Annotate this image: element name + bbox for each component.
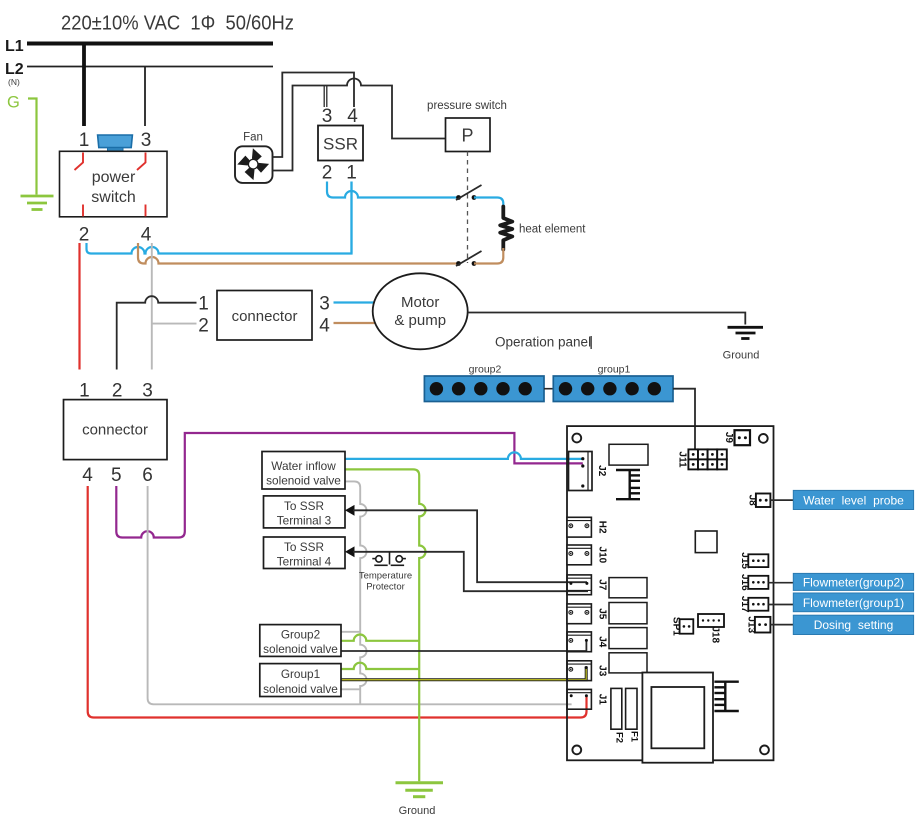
- svg-text:J9: J9: [723, 432, 734, 444]
- svg-text:3: 3: [319, 294, 330, 315]
- svg-text:Ground: Ground: [399, 805, 436, 817]
- ground (motor, black): [728, 327, 764, 338]
- contact K1 (upper, in blue wire): [456, 195, 461, 200]
- svg-text:power: power: [92, 169, 136, 186]
- svg-text:1: 1: [79, 130, 90, 151]
- svg-text:2: 2: [322, 163, 333, 184]
- svg-text:To SSR: To SSR: [284, 499, 324, 513]
- wire L1 bus: [27, 42, 273, 46]
- wire G to ground: [28, 99, 37, 195]
- svg-text:5: 5: [111, 465, 122, 486]
- wire gray branch to middle connector pin2: [152, 323, 197, 325]
- label box Water level probe: [793, 490, 913, 509]
- wire L1 to power switch pin 1: [82, 44, 86, 127]
- svg-text:4: 4: [141, 225, 152, 246]
- svg-text:J5: J5: [597, 608, 608, 620]
- wire group2-group1: [544, 388, 553, 390]
- svg-text:SSR: SSR: [323, 135, 358, 154]
- wire black: middle connector pin1 to lower connector pin2 (hops over gray): [117, 296, 197, 369]
- SSR pin3 lead (double line): [323, 86, 325, 108]
- svg-text:H2: H2: [597, 521, 608, 534]
- To SSR Terminal 4 box: [264, 537, 346, 569]
- wire blue contact to heat element top: [474, 198, 503, 209]
- SSR U1 body: [318, 126, 363, 161]
- svg-text:To SSR: To SSR: [284, 540, 324, 554]
- svg-text:P: P: [461, 126, 473, 146]
- operation panel connector group1: [553, 376, 673, 402]
- PCB outline: [567, 426, 774, 760]
- wire L2 to power switch pin 3: [144, 67, 146, 127]
- svg-text:solenoid valve: solenoid valve: [263, 642, 338, 656]
- svg-text:Fan: Fan: [243, 132, 263, 144]
- wire gray: water inflow valve down to gray bottom rail (hops right over crossing wires): [345, 481, 367, 704]
- operation panel connector group2: [424, 376, 544, 402]
- connector J5: [567, 604, 608, 624]
- svg-text:Flowmeter(group2): Flowmeter(group2): [803, 575, 904, 589]
- svg-text:Protector: Protector: [366, 582, 405, 593]
- four empty rects column: [609, 578, 647, 598]
- To SSR Terminal 3 box: [264, 496, 346, 528]
- svg-text:F2: F2: [614, 732, 625, 743]
- wire fan lower to SSR pin3 and pressure switch (hops over pin4 wire): [273, 79, 446, 171]
- wire gray: power switch pin4 down to connector pin3: [151, 243, 153, 370]
- svg-text:4: 4: [82, 465, 93, 486]
- svg-text:1: 1: [79, 381, 90, 402]
- Group2 solenoid valve box: [260, 625, 341, 657]
- svg-text:Operation panel: Operation panel: [495, 335, 591, 350]
- svg-text:6: 6: [142, 465, 153, 486]
- mounting hole top-left: [572, 434, 581, 443]
- wire blue: SSR pin1 down-left (to power switch pin2 rail): [350, 182, 352, 254]
- center empty square: [695, 531, 717, 553]
- svg-text:J11: J11: [677, 451, 688, 468]
- wire gray stub group1 box: [341, 688, 360, 690]
- wire black: group2 box to J4: [341, 641, 586, 652]
- wire J17 to flowmeter group1 label: [768, 604, 793, 606]
- svg-text:Group1: Group1: [281, 667, 320, 681]
- connector H2: [567, 517, 608, 537]
- svg-text:Flowmeter(group1): Flowmeter(group1): [803, 596, 904, 610]
- svg-text:heat element: heat element: [519, 224, 586, 236]
- switch contact marks (red): [75, 153, 146, 217]
- svg-text:Motor: Motor: [401, 294, 439, 311]
- svg-text:Terminal 3: Terminal 3: [277, 514, 332, 528]
- arrow into SSR Terminal 4 box: [345, 546, 355, 557]
- svg-text:pressure switch: pressure switch: [427, 100, 507, 112]
- svg-text:4: 4: [347, 106, 358, 127]
- svg-text:1: 1: [198, 294, 209, 315]
- wire brown: connector pin4 to motor: [334, 322, 376, 324]
- wire green tap group1 box (hops over gray): [341, 663, 419, 669]
- wire motor to ground: [468, 313, 746, 325]
- svg-text:J7: J7: [597, 579, 608, 591]
- heatsink upper: [616, 470, 640, 499]
- svg-text:2: 2: [198, 316, 209, 337]
- wire brown: power switch pin4 to heat element bottom rail: [138, 243, 459, 264]
- rocker button of power switch: [98, 135, 133, 148]
- svg-text:3: 3: [142, 381, 153, 402]
- fan blades icon: [237, 148, 269, 180]
- svg-text:L1: L1: [5, 38, 24, 55]
- svg-text:G: G: [7, 94, 20, 112]
- svg-text:connector: connector: [82, 422, 148, 439]
- svg-text:J10: J10: [597, 547, 608, 564]
- svg-text:F1: F1: [629, 731, 640, 743]
- middle connector X1 body: [217, 291, 312, 341]
- svg-text:J4: J4: [597, 636, 608, 648]
- wire group1 to PCB J11: [673, 389, 695, 450]
- wire blue: SSR pin2 to pressure contact (hops over pin1 wire): [327, 182, 459, 198]
- svg-text:J3: J3: [597, 665, 608, 677]
- mounting hole top-right: [759, 434, 768, 443]
- wire cyan: water inflow valve to J2 pin1 (hops over purple): [345, 452, 583, 459]
- svg-text:J1: J1: [597, 694, 608, 706]
- svg-text:J2: J2: [596, 465, 607, 477]
- fuse F1: [626, 688, 637, 729]
- svg-text:Group2: Group2: [281, 628, 320, 642]
- contact K2 (lower, in brown wire): [456, 261, 461, 266]
- svg-text:& pump: & pump: [394, 312, 446, 329]
- svg-text:2: 2: [112, 381, 123, 402]
- ground (green, bottom): [396, 783, 444, 797]
- pressure switch P body: [446, 118, 491, 152]
- svg-text:1: 1: [346, 163, 357, 184]
- power switch S1 body: [60, 151, 168, 217]
- wire blue: connector pin3 to motor: [334, 301, 375, 303]
- svg-text:Dosing setting: Dosing setting: [814, 618, 894, 632]
- wire brown contact to heat element bottom: [474, 248, 503, 264]
- wire red: lower connector pin4 to PCB J1: [88, 486, 587, 718]
- heatsink lower: [714, 682, 738, 711]
- svg-text:J18: J18: [710, 626, 721, 643]
- connector J3: [567, 661, 608, 681]
- text cursor mark: [591, 336, 592, 349]
- wire fan upper to SSR pin4: [273, 73, 355, 158]
- svg-text:L2: L2: [5, 61, 24, 78]
- svg-text:4: 4: [319, 316, 330, 337]
- svg-text:solenoid valve: solenoid valve: [266, 474, 341, 488]
- top small rect (relay): [609, 444, 648, 465]
- wire black: J7 to SSR terminal4 box: [353, 552, 588, 591]
- wire purple: lower connector pin5 to PCB J2 (hops over gray): [116, 433, 583, 538]
- svg-text:3: 3: [322, 106, 333, 127]
- wire green tap group2 box (hops over gray): [341, 635, 419, 641]
- dashed link pressure switch to contacts: [467, 152, 469, 264]
- wire L2 bus: [27, 66, 273, 68]
- temperature protector symbol: [372, 552, 406, 566]
- wire J13 to dosing setting label: [770, 624, 793, 626]
- wire J8 to water level probe label: [770, 499, 793, 501]
- ground (protective earth, green): [21, 196, 54, 210]
- mounting hole bottom-right: [760, 746, 769, 755]
- svg-text:Temperature: Temperature: [359, 571, 412, 582]
- svg-text:(N): (N): [8, 77, 20, 87]
- svg-text:solenoid valve: solenoid valve: [263, 682, 338, 696]
- svg-text:Ground: Ground: [723, 350, 760, 362]
- power module: [642, 673, 713, 763]
- wire red: power switch pin2 down to connector pin1: [78, 243, 80, 370]
- header J18: [698, 614, 724, 627]
- label box Flowmeter(group2): [793, 573, 913, 590]
- svg-text:3: 3: [141, 130, 152, 151]
- arrow into SSR Terminal 3 box: [345, 505, 355, 516]
- connector J1: [567, 689, 608, 709]
- label box Flowmeter(group1): [793, 593, 913, 612]
- connector J2: [569, 452, 593, 491]
- wire green: water inflow valve to ground rail (hops right over black wires): [345, 469, 426, 781]
- svg-text:Terminal 4: Terminal 4: [277, 555, 332, 569]
- wire gray stub group2 box: [341, 631, 360, 633]
- wire gray: lower connector pin6 to PCB J1 area: [148, 486, 572, 704]
- mounting hole bottom-left: [572, 746, 581, 755]
- svg-text:2: 2: [79, 225, 90, 246]
- svg-text:220±10% VAC 1Φ 50/60Hz: 220±10% VAC 1Φ 50/60Hz: [61, 12, 294, 35]
- wire yellow: group1 box to J3: [341, 667, 586, 680]
- label box Dosing setting: [793, 615, 913, 634]
- svg-text:connector: connector: [232, 308, 298, 325]
- svg-text:switch: switch: [91, 189, 135, 206]
- connector J7: [567, 575, 608, 595]
- svg-text:Water inflow: Water inflow: [271, 459, 336, 473]
- Group1 solenoid valve box: [260, 664, 341, 697]
- connector J10: [567, 545, 608, 565]
- fuse F2: [611, 688, 622, 729]
- lower connector X2 body: [64, 400, 168, 460]
- wire blue: power switch pin2 to SSR pin1 (hops over brown+gray): [87, 182, 352, 254]
- svg-text:Water level probe: Water level probe: [803, 493, 904, 507]
- Water inflow solenoid valve box: [262, 452, 345, 490]
- wire black: J7 to SSR terminal3 box: [353, 510, 587, 582]
- motor M2 (Motor & pump): [373, 273, 468, 349]
- fan M1 body: [235, 146, 273, 183]
- wire J16 to flowmeter group2 label: [768, 582, 793, 584]
- svg-text:group1: group1: [598, 364, 631, 376]
- heat element R1: [500, 207, 512, 250]
- svg-text:group2: group2: [469, 364, 502, 376]
- connector J4: [567, 632, 608, 652]
